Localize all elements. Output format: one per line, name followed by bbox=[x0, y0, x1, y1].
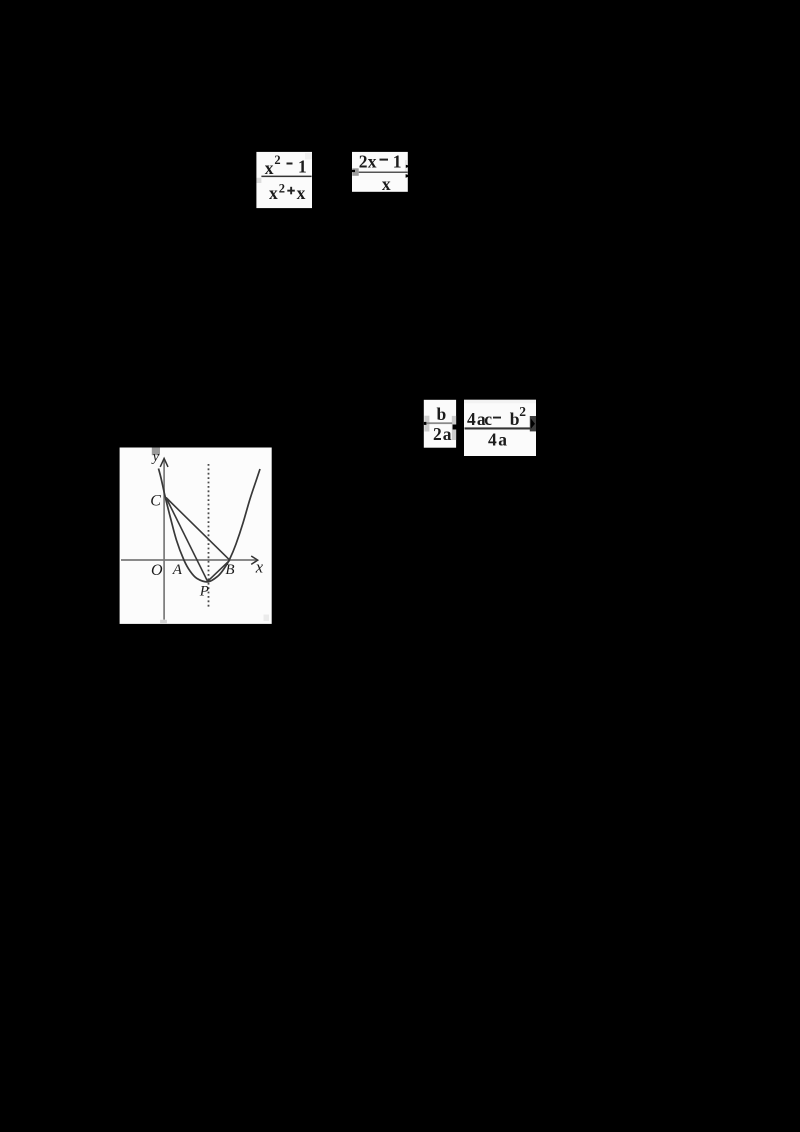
svg-text:2: 2 bbox=[279, 182, 285, 196]
formula box 4: (4ac-b^2)/(4a) bbox=[464, 400, 536, 456]
svg-text:2: 2 bbox=[433, 424, 442, 444]
arrow handle right edge box 4 bbox=[530, 416, 536, 431]
line P to B bbox=[208, 560, 230, 581]
svg-text:b: b bbox=[510, 409, 520, 429]
black square right edge box 3 bbox=[453, 425, 458, 430]
y axis bbox=[163, 461, 165, 620]
svg-text:1: 1 bbox=[393, 152, 402, 172]
svg-text:2: 2 bbox=[359, 151, 368, 171]
formula box 2: (2x-1)/x bbox=[352, 151, 409, 193]
graph box bbox=[120, 448, 272, 624]
x axis arrow bbox=[251, 556, 258, 564]
svg-text:C: C bbox=[150, 492, 161, 509]
svg-text:x: x bbox=[265, 158, 274, 178]
black nub left edge box 2 bbox=[352, 170, 355, 172]
dashed symmetry axis through P bbox=[208, 464, 210, 608]
svg-text:A: A bbox=[172, 562, 183, 578]
svg-text:x: x bbox=[269, 183, 278, 203]
black marks right edge box 2 bbox=[406, 165, 409, 168]
svg-text:B: B bbox=[225, 562, 234, 578]
svg-text:4: 4 bbox=[488, 430, 497, 450]
formula box 1: (x^2-1)/(x^2+x) bbox=[256, 152, 312, 208]
svg-text:1: 1 bbox=[298, 157, 307, 177]
svg-text:x: x bbox=[255, 558, 264, 577]
svg-text:a: a bbox=[443, 424, 452, 444]
svg-text:4: 4 bbox=[467, 409, 476, 429]
gray handles box 3 bbox=[424, 416, 429, 432]
svg-text:P: P bbox=[199, 584, 209, 600]
svg-text:x: x bbox=[368, 152, 377, 172]
gray handle left edge box 2 bbox=[352, 168, 358, 176]
line C to B bbox=[166, 498, 230, 561]
x axis bbox=[121, 559, 256, 561]
formula box 3: b/(2a) bbox=[424, 400, 457, 448]
line C to P bbox=[166, 498, 208, 582]
svg-text:a: a bbox=[498, 430, 507, 450]
svg-text:c: c bbox=[484, 409, 492, 429]
svg-text:2: 2 bbox=[274, 153, 280, 167]
black nub left edge box 3 bbox=[424, 422, 427, 425]
light strip right edge box 2 bbox=[405, 160, 407, 173]
svg-text:x: x bbox=[382, 174, 391, 194]
svg-text:O: O bbox=[151, 562, 163, 579]
gray tab bottom bbox=[160, 620, 167, 623]
svg-text:2: 2 bbox=[519, 404, 526, 419]
svg-text:y: y bbox=[151, 449, 160, 465]
svg-text:b: b bbox=[437, 404, 447, 424]
svg-text:x: x bbox=[297, 183, 306, 203]
smudge bottom right bbox=[264, 615, 270, 622]
y axis arrow bbox=[160, 458, 168, 467]
parabola bbox=[159, 469, 261, 582]
gray tab top bbox=[152, 448, 160, 456]
